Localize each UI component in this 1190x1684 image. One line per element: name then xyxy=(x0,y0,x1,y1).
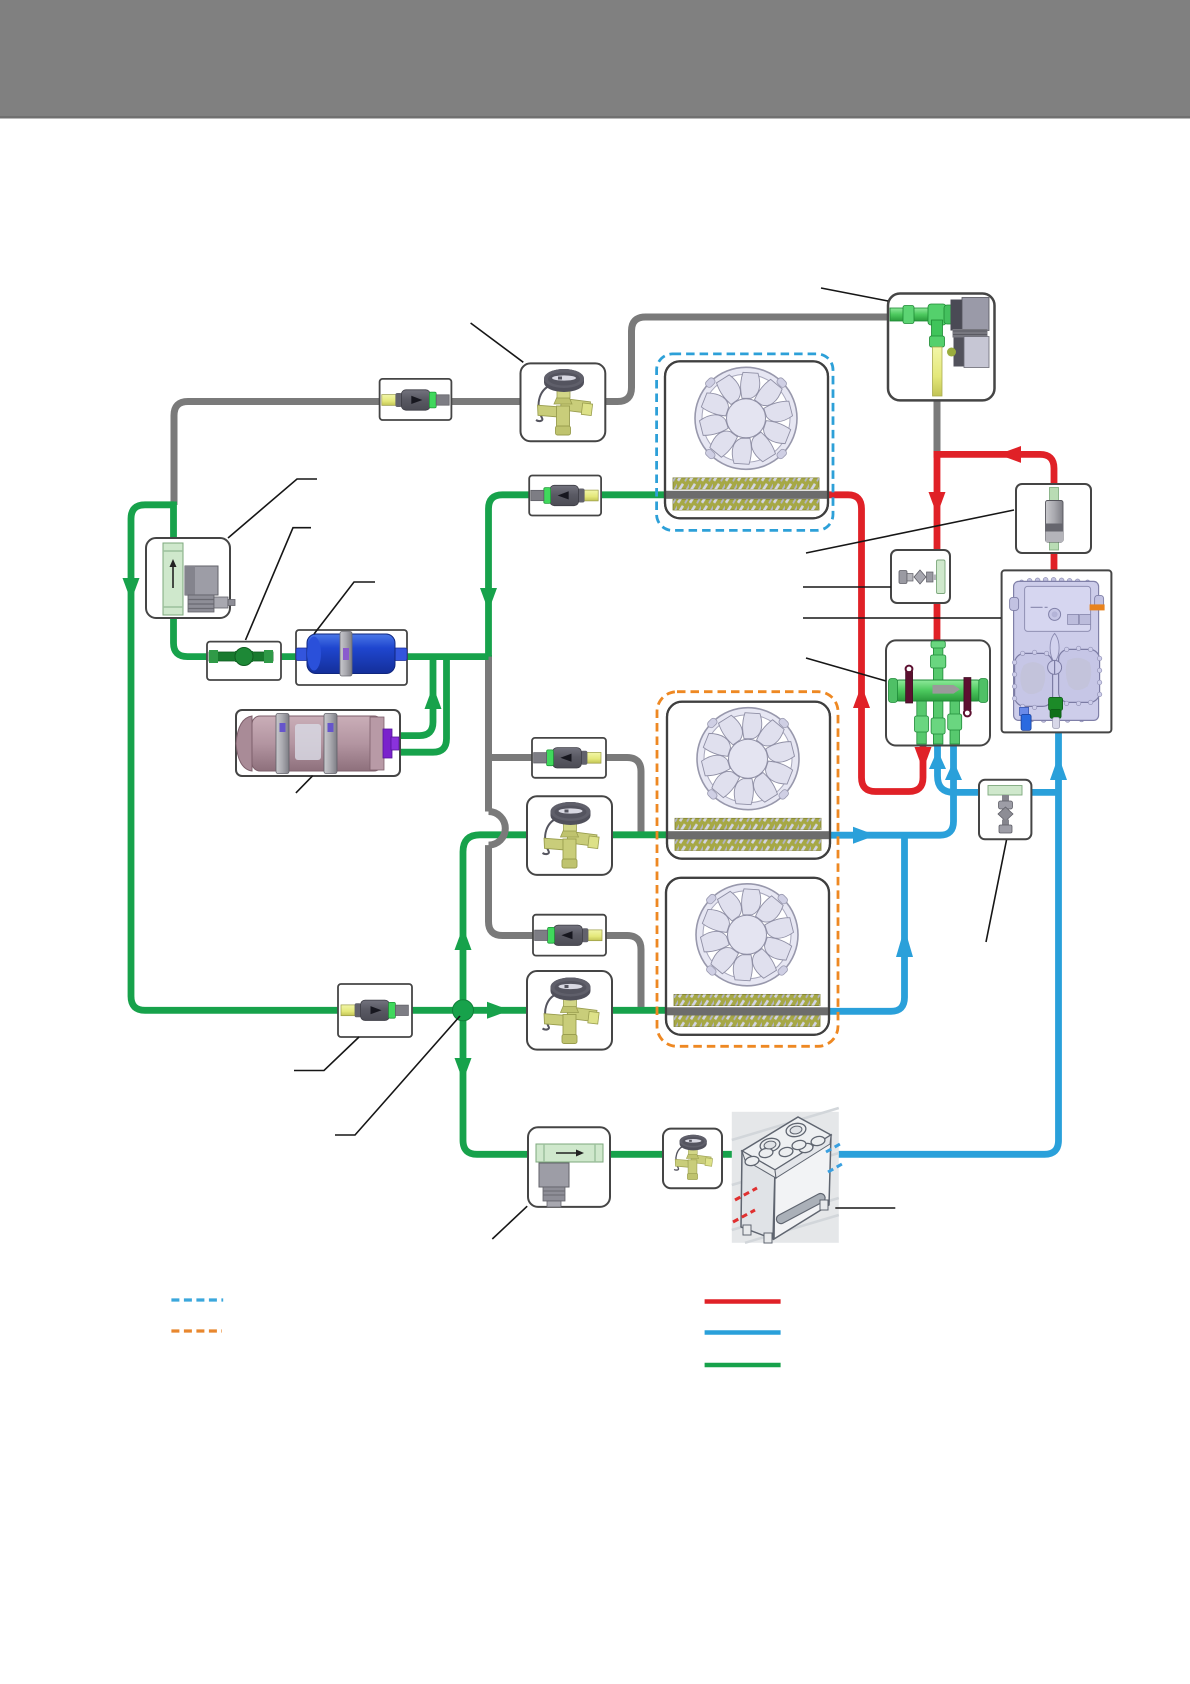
component box: check valve CV2 xyxy=(529,476,601,516)
schrader valve icon xyxy=(899,560,945,594)
component box: check valve CV3 xyxy=(532,738,606,778)
check valve CV5 icon (points right) xyxy=(341,1000,408,1020)
component box: schrader valve xyxy=(891,550,950,603)
check valve CV2 icon (points left) xyxy=(531,485,598,505)
arrow: green down to economizer line xyxy=(455,1058,472,1081)
wire: green drop through liquid solenoid to filter drier line xyxy=(174,502,489,657)
sight glass icon xyxy=(209,648,273,666)
suction service valve icon xyxy=(988,786,1022,834)
component box: suction manifold xyxy=(886,640,990,745)
tee solenoid valve icon (green tee + coil) xyxy=(890,298,989,397)
liquid receiver icon (pink tank) xyxy=(236,714,399,774)
arrow: red down to manifold xyxy=(929,492,946,515)
component box: check valve CV1 xyxy=(380,379,452,420)
wire: green feed to TXV3 / coil 3 xyxy=(463,1007,672,1014)
leader: plate heat exchanger xyxy=(835,1207,895,1209)
economizer solenoid icon (horizontal) xyxy=(536,1144,603,1207)
leader: oil filter xyxy=(806,510,1014,553)
legend: liquid line green xyxy=(705,1363,781,1368)
plate heat exchanger image xyxy=(732,1108,842,1243)
component box: compressor xyxy=(1002,570,1112,732)
component box: tee solenoid valve xyxy=(888,294,995,401)
wire: red oil filter to compressor xyxy=(1051,551,1058,572)
TXV4 icon (small) xyxy=(674,1135,713,1180)
component box: liquid receiver xyxy=(236,710,400,776)
wire: blue manifold port 2 to service valve branch xyxy=(938,743,955,792)
wire: green feed to TXV2 / coil 2 xyxy=(463,835,672,1011)
component box: TXV2 expansion valve xyxy=(527,796,612,875)
component box: oil filter xyxy=(1016,484,1091,553)
leader: liquid receiver xyxy=(296,776,313,793)
arrow: blue up into compressor suction xyxy=(1050,756,1067,780)
wire: gray drop from tee solenoid valve to red tee xyxy=(934,398,941,452)
fan coil unit 1 (condenser) xyxy=(665,361,828,518)
component box: TXV4 expansion valve xyxy=(663,1129,722,1189)
node: green junction dot xyxy=(453,1000,474,1021)
component box: economizer solenoid xyxy=(528,1127,610,1207)
leader: compressor xyxy=(803,617,1001,619)
arrow: green up to TXV2 xyxy=(455,927,472,950)
leader: check valve CV5 xyxy=(294,1037,359,1071)
check valve CV1 icon (points right) xyxy=(382,390,449,410)
fan coil unit 2 xyxy=(667,702,830,859)
component box: TXV1 expansion valve xyxy=(521,363,606,441)
wire: red manifold port 1 loop to condenser coil 1 xyxy=(822,495,923,792)
wire: blue suction main from plate HX to compressor xyxy=(837,732,1059,1154)
legend: condenser circuit dashed blue xyxy=(171,1298,223,1301)
wire: green receiver inlet drop xyxy=(397,657,447,753)
leader: schrader valve xyxy=(803,586,891,588)
component box: filter drier xyxy=(296,630,407,685)
liquid line solenoid icon xyxy=(163,543,235,615)
wire: green liquid main left loop xyxy=(131,505,455,1011)
wire: green liquid from condenser coil 1 xyxy=(489,495,671,657)
check valve CV4 icon (points left) xyxy=(535,925,602,945)
leader: economizer solenoid xyxy=(492,1206,527,1239)
component box: liquid line solenoid xyxy=(146,538,230,618)
dashed enclosure: condenser circuit (blue dashed) xyxy=(657,354,833,531)
leader: suction manifold xyxy=(806,658,886,681)
component box: TXV3 expansion valve xyxy=(527,971,612,1050)
component box: check valve CV4 xyxy=(533,915,606,956)
arrow: green down on left loop xyxy=(123,578,140,601)
arrow: green up on receiver outlet riser xyxy=(425,686,442,709)
leader: tee solenoid valve xyxy=(821,288,888,301)
arrow: green down on condenser liquid drop xyxy=(480,588,497,611)
arrow: red left toward manifold drop xyxy=(998,446,1021,463)
fan coil unit 3 xyxy=(666,878,829,1035)
wire: green feed to bottom solenoid and plate HX xyxy=(463,1010,736,1154)
oil filter icon (vertical cartridge) xyxy=(1046,488,1064,551)
wire: gray discharge loop top-left (solenoid box to liquid solenoid drop) xyxy=(174,317,888,505)
wire: gray suction column upper part xyxy=(485,655,492,812)
legend: evaporator circuit dashed orange xyxy=(171,1329,222,1332)
arrow: blue right from coil 2 xyxy=(853,827,876,844)
TXV1 icon xyxy=(536,369,593,435)
component box: check valve CV5 xyxy=(338,984,412,1037)
arrow: green right to TXV3 xyxy=(487,1002,510,1019)
legend: discharge line red xyxy=(705,1299,781,1304)
filter drier icon (blue cylinder) xyxy=(296,632,407,677)
legend: suction line blue xyxy=(705,1330,781,1335)
TXV2 icon xyxy=(542,802,599,868)
top gray header band xyxy=(0,0,1190,118)
check valve CV3 icon (points left) xyxy=(534,748,601,768)
leader: sight glass xyxy=(246,528,312,640)
leader: suction service valve xyxy=(986,840,1007,942)
wire: red drop to 4-way manifold xyxy=(934,451,941,640)
wire: blue service valve branch to suction line xyxy=(954,789,1059,796)
compressor icon xyxy=(1010,578,1105,731)
arrow: red up toward condenser coil xyxy=(853,685,870,708)
dashed enclosure: evaporator circuit (orange dashed) xyxy=(657,692,838,1047)
TXV3 icon xyxy=(542,978,599,1044)
wire: gray pipe bridge hop over green line xyxy=(489,812,506,846)
arrow: red down from manifold port 1 xyxy=(915,747,932,770)
component box: sight glass xyxy=(207,642,281,680)
wire: blue suction from coil 2 to manifold port 3 xyxy=(824,743,954,835)
arrow: blue up into manifold port 3 xyxy=(945,761,962,780)
wire: gray branch to check valve CV3 and down to coil 2 line xyxy=(489,758,642,833)
component box: suction service valve xyxy=(979,780,1031,840)
leader: junction node xyxy=(335,1016,460,1135)
arrow: blue up from coil 3 riser xyxy=(896,928,913,957)
leader: liquid line solenoid xyxy=(228,479,317,538)
wire: red discharge from compressor to tee xyxy=(934,454,1054,486)
suction manifold icon (green header) xyxy=(889,641,988,744)
leader: TXV1 xyxy=(471,323,524,362)
wire: blue suction riser from coil 3 xyxy=(824,838,905,1011)
wire: green receiver outlet riser xyxy=(397,657,433,736)
wire: gray suction column lower part to check valve CV4 xyxy=(489,845,642,1008)
arrow: blue up into manifold port 2 xyxy=(929,750,946,769)
leader: filter drier xyxy=(314,582,375,634)
